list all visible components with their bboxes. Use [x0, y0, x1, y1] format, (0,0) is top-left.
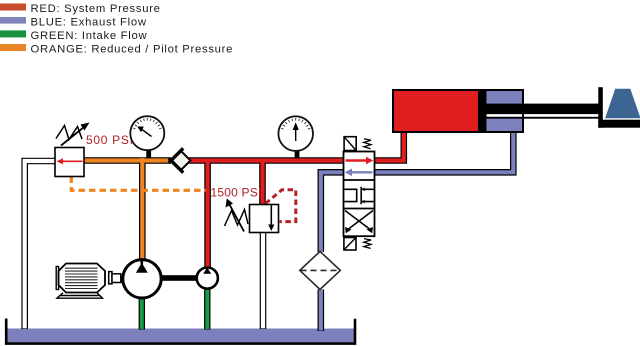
pressure reducing valve V1 body	[55, 148, 84, 177]
wire: blue exhaust line valve to filter	[321, 172, 344, 252]
cylinder CYL1 rod	[480, 104, 599, 115]
wire: blue return filter to tank	[317, 290, 324, 332]
svg-text:1500 PSI: 1500 PSI	[211, 186, 262, 200]
cylinder CYL1 cap-end fluid (red)	[393, 90, 478, 132]
wire: green intake pump P2 to tank	[204, 289, 210, 330]
directional valve DV1 top solenoid	[344, 137, 356, 151]
load wedge	[605, 89, 640, 119]
directional valve DV1 bottom solenoid	[344, 238, 356, 251]
gauge G1 body	[130, 116, 164, 150]
electric motor M1 base	[57, 293, 103, 298]
load base bar	[598, 120, 640, 128]
wire: red drop to relief valve	[259, 161, 266, 207]
reservoir tank outline	[6, 319, 355, 344]
legend swatch red	[0, 4, 26, 11]
wire: orange supply riser from pump P1	[139, 161, 146, 260]
check valve CV1 seat	[169, 148, 183, 172]
pump coupling shaft P1-P2	[161, 275, 197, 281]
cylinder CYL1 barrel outline	[393, 90, 523, 132]
load coupling plate	[598, 87, 603, 128]
gauge G1 needle	[142, 130, 152, 137]
gauge G2 ticks	[281, 118, 310, 129]
electric motor M1 end cap	[56, 267, 58, 290]
directional valve DV1 position 3 crossed arrows	[345, 211, 373, 231]
gauge G1 ticks	[133, 118, 162, 129]
pressure reducing valve V1 flow arrow	[60, 160, 83, 162]
legend swatch blue	[0, 17, 26, 24]
cylinder CYL1 piston	[478, 90, 487, 132]
directional valve DV1 position 2 blocked-port symbols	[344, 189, 356, 201]
filter F1 body	[300, 251, 341, 289]
svg-text:BLUE: Exhaust Flow: BLUE: Exhaust Flow	[31, 16, 147, 28]
wire: drain pipe from reducing valve to tank (white)	[25, 161, 56, 329]
electric motor M1 body	[59, 264, 106, 293]
directional valve DV1 top spring	[364, 139, 371, 149]
cylinder CYL1 rod-end fluid (blue)	[487, 90, 523, 132]
svg-text:GREEN: Intake Flow: GREEN: Intake Flow	[31, 30, 148, 42]
wire: orange reduced-pressure line (reducing valve to check valve)	[84, 157, 171, 164]
wire: red line valve to cylinder cap end	[374, 131, 404, 161]
gauge G2 needle	[295, 130, 297, 141]
reservoir tank fluid	[7, 329, 355, 343]
wire: red dashed pilot loop of relief valve	[266, 190, 296, 222]
wire: red system pressure main line	[189, 157, 344, 164]
pump P1 outlet triangle	[136, 263, 148, 273]
pump P2 outlet triangle	[203, 267, 211, 274]
wire: blue exhaust line valve to cylinder rod end	[374, 131, 513, 173]
relief valve V2 flow arrow	[270, 206, 272, 228]
electric motor M1 fins	[65, 268, 98, 288]
legend swatch orange	[0, 44, 26, 51]
check valve CV1 body	[171, 151, 191, 171]
gauge G2 stem	[295, 150, 300, 159]
svg-text:RED: System Pressure: RED: System Pressure	[31, 3, 161, 15]
wire: green intake pump P1 to tank	[139, 299, 145, 330]
directional valve DV1 bottom spring	[364, 239, 371, 249]
gauge G1 stem	[146, 149, 151, 158]
pressure reducing valve V1 spring	[56, 126, 82, 140]
relief valve V2 spring	[225, 210, 249, 227]
directional valve DV1 body	[344, 152, 375, 237]
relief valve V2 adjustment arrow	[230, 205, 245, 232]
legend swatch green	[0, 30, 26, 37]
pump P2 body	[197, 268, 218, 289]
pump P1 body	[123, 260, 161, 298]
wire: drain pipe from relief valve to tank (white)	[260, 232, 267, 329]
svg-text:500 PSI: 500 PSI	[86, 133, 134, 147]
pressure reducing valve V1 adjustment arrow	[61, 127, 84, 146]
directional valve DV1 position 1 red arrow	[346, 159, 368, 161]
relief valve V2 body	[250, 205, 279, 233]
filter F1 element dashed	[301, 269, 340, 271]
wire: red riser to pump P2	[204, 161, 211, 269]
wire: orange dashed pilot line (reducing valve sensing)	[71, 177, 205, 191]
svg-text:ORANGE: Reduced / Pilot Pressu: ORANGE: Reduced / Pilot Pressure	[31, 44, 234, 56]
gauge G2 body	[278, 116, 313, 151]
electric motor M1 shaft	[109, 272, 112, 284]
directional valve DV1 position 1 blue arrow	[351, 171, 373, 173]
